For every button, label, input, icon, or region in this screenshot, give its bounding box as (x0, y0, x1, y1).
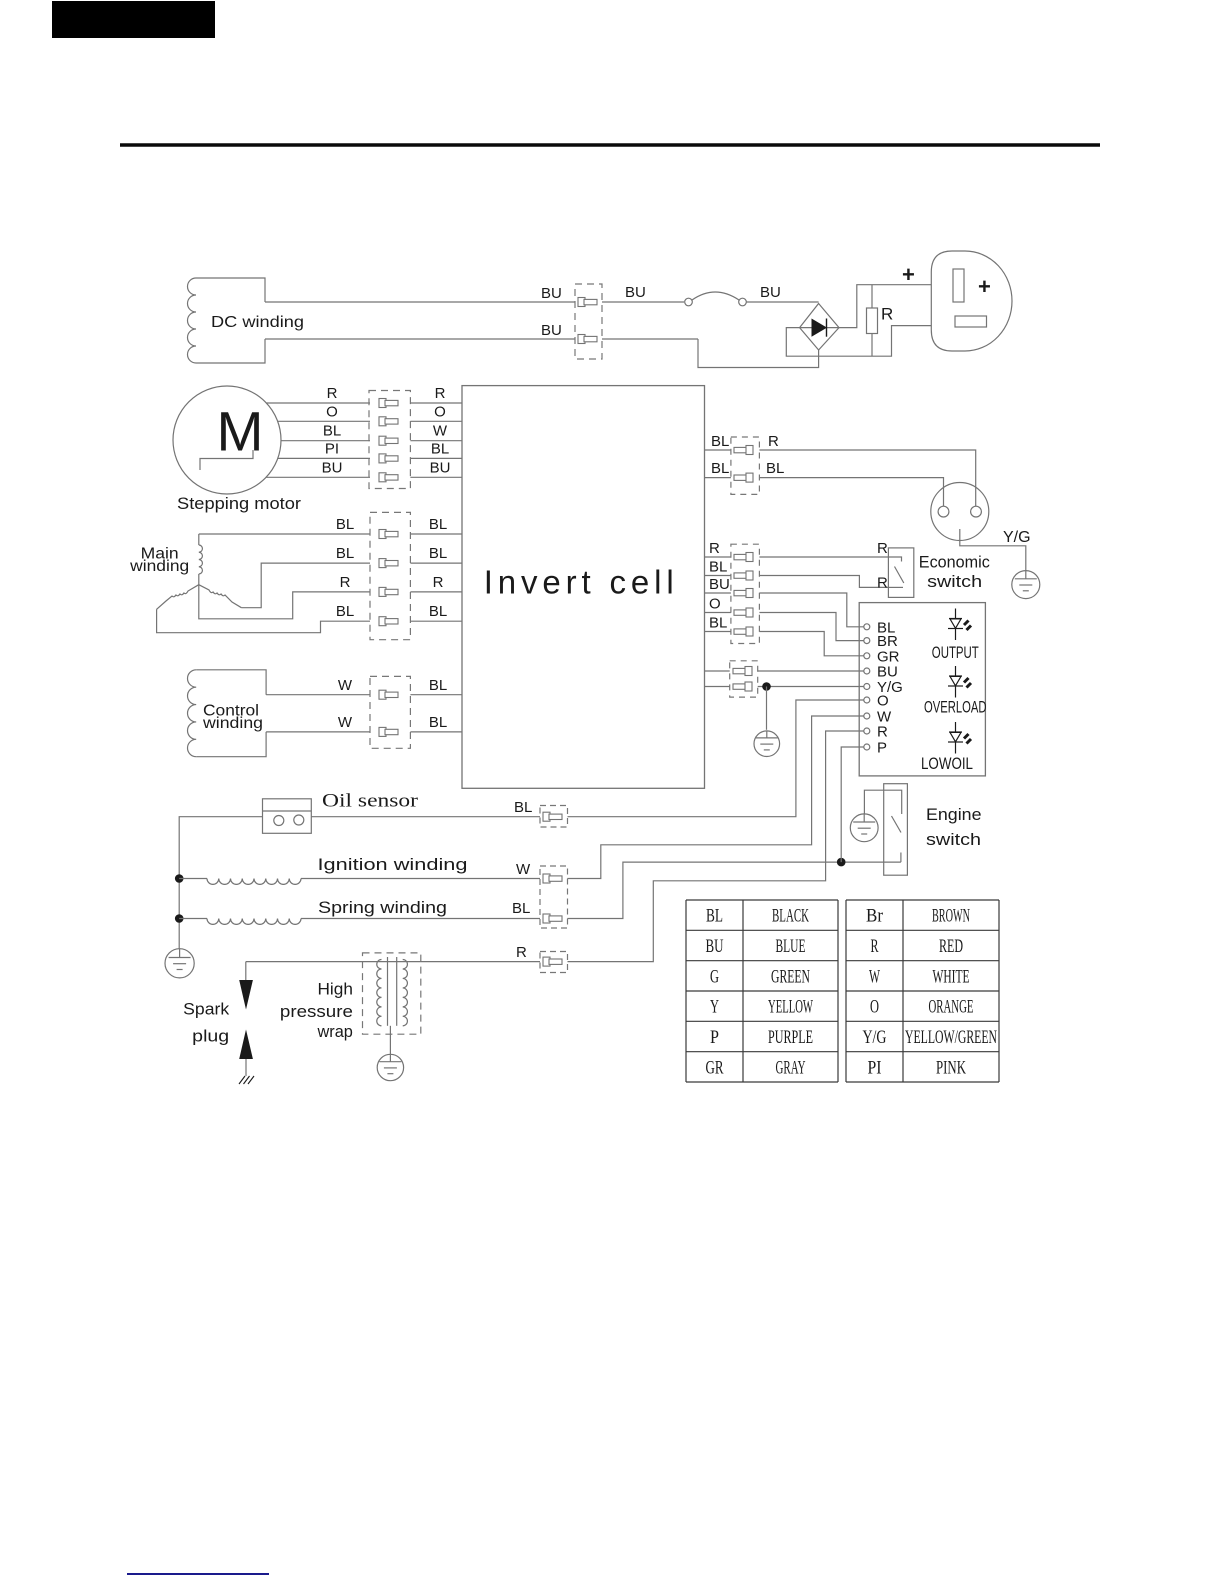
svg-text:PURPLE: PURPLE (768, 1027, 813, 1048)
svg-text:R: R (877, 540, 888, 557)
svg-text:Economic: Economic (919, 553, 990, 572)
svg-text:BL: BL (429, 516, 447, 533)
svg-text:switch: switch (926, 830, 981, 849)
svg-text:switch: switch (927, 572, 982, 591)
svg-text:P: P (710, 1027, 719, 1048)
svg-text:BU: BU (625, 284, 646, 301)
svg-text:O: O (870, 997, 879, 1018)
svg-text:BL: BL (429, 677, 447, 694)
svg-text:R: R (768, 433, 779, 450)
svg-text:BL: BL (709, 559, 727, 576)
svg-text:GRAY: GRAY (776, 1057, 806, 1078)
svg-text:Y: Y (710, 997, 719, 1018)
svg-text:plug: plug (192, 1027, 229, 1046)
svg-text:R: R (709, 540, 720, 557)
svg-text:Y/G: Y/G (863, 1027, 887, 1048)
svg-text:WHITE: WHITE (933, 966, 970, 987)
svg-text:BU: BU (709, 576, 730, 593)
svg-text:BL: BL (336, 545, 354, 562)
svg-text:BL: BL (512, 900, 530, 917)
svg-text:O: O (709, 596, 721, 613)
svg-text:Spark: Spark (183, 1000, 230, 1019)
svg-text:W: W (516, 861, 531, 878)
svg-text:BL: BL (706, 906, 723, 927)
svg-text:wrap: wrap (317, 1022, 353, 1041)
svg-text:R: R (877, 575, 888, 592)
svg-text:R: R (516, 944, 527, 961)
svg-text:R: R (435, 385, 446, 402)
svg-text:BL: BL (711, 460, 729, 477)
svg-text:BU: BU (541, 322, 562, 339)
svg-text:W: W (338, 714, 353, 731)
svg-text:BL: BL (711, 433, 729, 450)
svg-text:G: G (710, 966, 719, 987)
svg-text:OUTPUT: OUTPUT (932, 644, 979, 662)
svg-text:BL: BL (323, 423, 341, 440)
svg-text:W: W (338, 677, 353, 694)
svg-text:Oil sensor: Oil sensor (322, 791, 419, 812)
svg-text:R: R (881, 305, 893, 324)
svg-text:GR: GR (706, 1057, 724, 1078)
svg-text:P: P (877, 740, 887, 757)
svg-text:YELLOW: YELLOW (768, 997, 813, 1018)
svg-text:M: M (217, 400, 264, 463)
svg-text:+: + (978, 274, 991, 299)
svg-text:ORANGE: ORANGE (929, 997, 974, 1018)
svg-text:BL: BL (709, 615, 727, 632)
svg-text:BL: BL (336, 516, 354, 533)
svg-text:Ignition winding: Ignition winding (318, 855, 468, 874)
svg-text:R: R (327, 385, 338, 402)
svg-text:O: O (434, 403, 446, 420)
svg-text:R: R (877, 724, 888, 741)
svg-text:W: W (869, 966, 880, 987)
svg-text:Spring winding: Spring winding (318, 898, 447, 917)
svg-text:BU: BU (541, 285, 562, 302)
svg-text:RED: RED (939, 936, 963, 957)
svg-text:BU: BU (760, 284, 781, 301)
svg-text:+: + (902, 262, 915, 287)
svg-text:W: W (433, 423, 448, 440)
svg-text:Engine: Engine (926, 805, 982, 824)
svg-text:BL: BL (429, 545, 447, 562)
svg-text:OVERLOAD: OVERLOAD (924, 699, 987, 717)
svg-text:BU: BU (430, 459, 451, 476)
svg-text:BU: BU (322, 459, 343, 476)
svg-text:Y/G: Y/G (1003, 529, 1031, 546)
svg-text:O: O (326, 403, 338, 420)
svg-text:BLUE: BLUE (776, 936, 806, 957)
svg-text:PI: PI (325, 440, 339, 457)
svg-text:BL: BL (766, 460, 784, 477)
svg-text:BLACK: BLACK (772, 906, 809, 927)
svg-text:YELLOW/GREEN: YELLOW/GREEN (905, 1027, 997, 1048)
svg-text:BL: BL (514, 799, 532, 816)
svg-text:PINK: PINK (936, 1057, 966, 1078)
svg-text:DC winding: DC winding (211, 314, 304, 331)
svg-text:O: O (877, 693, 889, 710)
svg-text:pressure: pressure (280, 1002, 353, 1021)
svg-text:BL: BL (429, 603, 447, 620)
svg-text:Stepping motor: Stepping motor (177, 495, 302, 513)
svg-text:BL: BL (336, 603, 354, 620)
svg-text:winding: winding (202, 715, 263, 732)
svg-text:R: R (433, 574, 444, 591)
svg-text:GREEN: GREEN (771, 966, 810, 987)
svg-text:Br: Br (866, 906, 884, 927)
svg-text:BL: BL (429, 714, 447, 731)
svg-text:BU: BU (877, 664, 898, 681)
svg-text:High: High (318, 979, 353, 998)
svg-text:PI: PI (868, 1057, 882, 1078)
svg-text:LOWOIL: LOWOIL (921, 755, 973, 773)
svg-text:winding: winding (129, 558, 189, 575)
svg-text:BU: BU (706, 936, 724, 957)
svg-text:BL: BL (431, 440, 449, 457)
svg-text:R: R (871, 936, 879, 957)
svg-text:R: R (340, 574, 351, 591)
svg-text:BROWN: BROWN (932, 906, 970, 927)
